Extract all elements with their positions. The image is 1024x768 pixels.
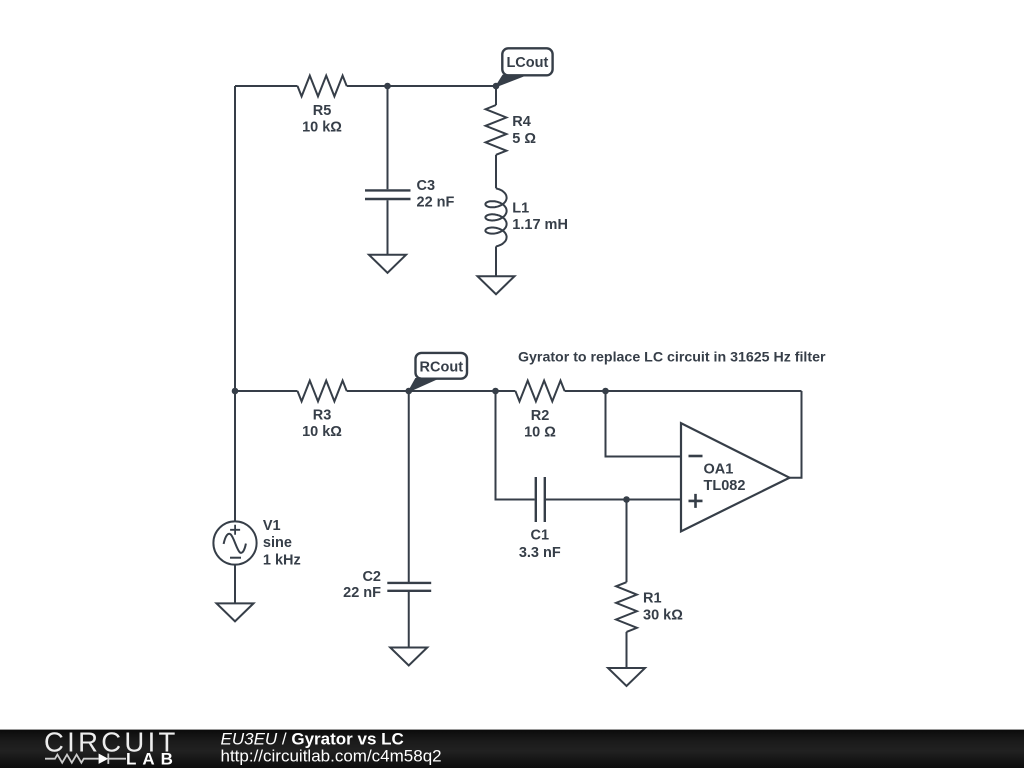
wire R1 to ground xyxy=(626,632,628,668)
node junction dot at LCout xyxy=(493,83,500,90)
wire inverting input xyxy=(606,391,682,457)
node label LCout xyxy=(496,48,553,86)
node junction dot at C3 tap xyxy=(384,83,391,90)
wire left rail V1 to R5/R3 xyxy=(234,86,236,391)
svg-text:30 kΩ: 30 kΩ xyxy=(643,608,683,624)
resistor R5 xyxy=(298,76,347,136)
capacitor C1 xyxy=(519,477,561,561)
wire R3 to R2 xyxy=(347,390,516,392)
wire L1 to ground xyxy=(495,246,497,276)
wire R5 to LCout node xyxy=(347,85,496,87)
resistor R1 xyxy=(616,582,683,632)
svg-text:10 kΩ: 10 kΩ xyxy=(302,424,342,440)
logo resistor-diode glyph xyxy=(45,754,126,764)
node junction dot at C1 branch xyxy=(492,388,499,395)
svg-text:C2: C2 xyxy=(362,569,381,585)
node label RCout xyxy=(409,353,467,392)
wire bottom rail into R3 xyxy=(235,390,298,392)
svg-text:5 Ω: 5 Ω xyxy=(512,131,536,147)
svg-text:L1: L1 xyxy=(512,200,529,216)
svg-text:LAB: LAB xyxy=(126,750,179,768)
svg-text:C3: C3 xyxy=(417,178,436,194)
ground below V1 xyxy=(217,603,254,621)
svg-text:Gyrator to replace LC circuit: Gyrator to replace LC circuit in 31625 H… xyxy=(518,349,826,365)
svg-text:R5: R5 xyxy=(313,103,332,119)
svg-text:V1: V1 xyxy=(263,518,281,534)
wire R2 to feedback corner xyxy=(565,390,802,392)
wire feedback down to op-amp output xyxy=(790,391,802,478)
ground below C2 xyxy=(390,648,427,666)
wire top rail into R5 xyxy=(235,85,298,87)
svg-text:1 kHz: 1 kHz xyxy=(263,552,301,568)
svg-text:OA1: OA1 xyxy=(704,461,734,477)
svg-text:1.17 mH: 1.17 mH xyxy=(512,217,568,233)
capacitor C3 xyxy=(365,86,455,255)
wire node to R1 xyxy=(626,500,628,583)
svg-text:sine: sine xyxy=(263,535,292,551)
svg-text:R1: R1 xyxy=(643,590,662,606)
op-amp OA1 xyxy=(681,423,790,531)
svg-text:3.3 nF: 3.3 nF xyxy=(519,545,561,561)
wire R4 to L1 xyxy=(495,155,497,189)
capacitor C2 xyxy=(343,391,431,648)
svg-text:LCout: LCout xyxy=(506,55,548,71)
node junction dot at R1 tap xyxy=(623,496,630,503)
ground below L1 xyxy=(478,276,515,294)
ground below R1 xyxy=(608,668,645,686)
svg-text:22 nF: 22 nF xyxy=(417,194,455,210)
svg-text:R2: R2 xyxy=(531,408,550,424)
inductor L1 xyxy=(485,188,568,246)
node junction dot at RCout xyxy=(405,388,412,395)
svg-text:R4: R4 xyxy=(512,114,531,130)
svg-text:10 Ω: 10 Ω xyxy=(524,425,556,441)
wire C1 branch from RC rail xyxy=(496,391,535,500)
resistor R2 xyxy=(515,381,564,441)
svg-text:10 kΩ: 10 kΩ xyxy=(302,119,342,135)
node junction dot at left rail xyxy=(232,388,239,395)
wire LCout node to R4 xyxy=(495,86,497,105)
svg-text:C1: C1 xyxy=(531,528,550,544)
svg-text:RCout: RCout xyxy=(420,359,464,375)
resistor R3 xyxy=(298,381,347,440)
ground below C3 xyxy=(369,255,406,273)
svg-text:R3: R3 xyxy=(313,407,332,423)
wire C1 to op-amp plus input xyxy=(546,499,681,501)
node junction dot at feedback tap xyxy=(602,388,609,395)
svg-text:http://circuitlab.com/c4m58q2: http://circuitlab.com/c4m58q2 xyxy=(221,746,442,765)
resistor R4 xyxy=(486,105,537,155)
svg-text:TL082: TL082 xyxy=(704,478,746,494)
voltage source V1 xyxy=(213,391,300,603)
svg-text:22 nF: 22 nF xyxy=(343,585,381,601)
